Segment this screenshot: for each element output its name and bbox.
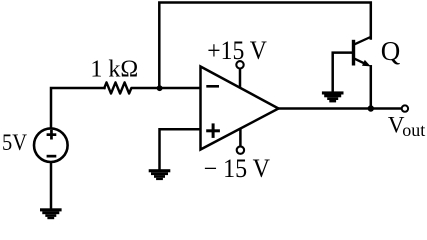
svg-text:+15 V: +15 V [207, 36, 267, 65]
svg-text:Q: Q [381, 36, 401, 66]
svg-text:1 kΩ: 1 kΩ [90, 57, 138, 83]
svg-text:− 15 V: − 15 V [204, 154, 271, 183]
svg-text:5V: 5V [2, 130, 27, 156]
